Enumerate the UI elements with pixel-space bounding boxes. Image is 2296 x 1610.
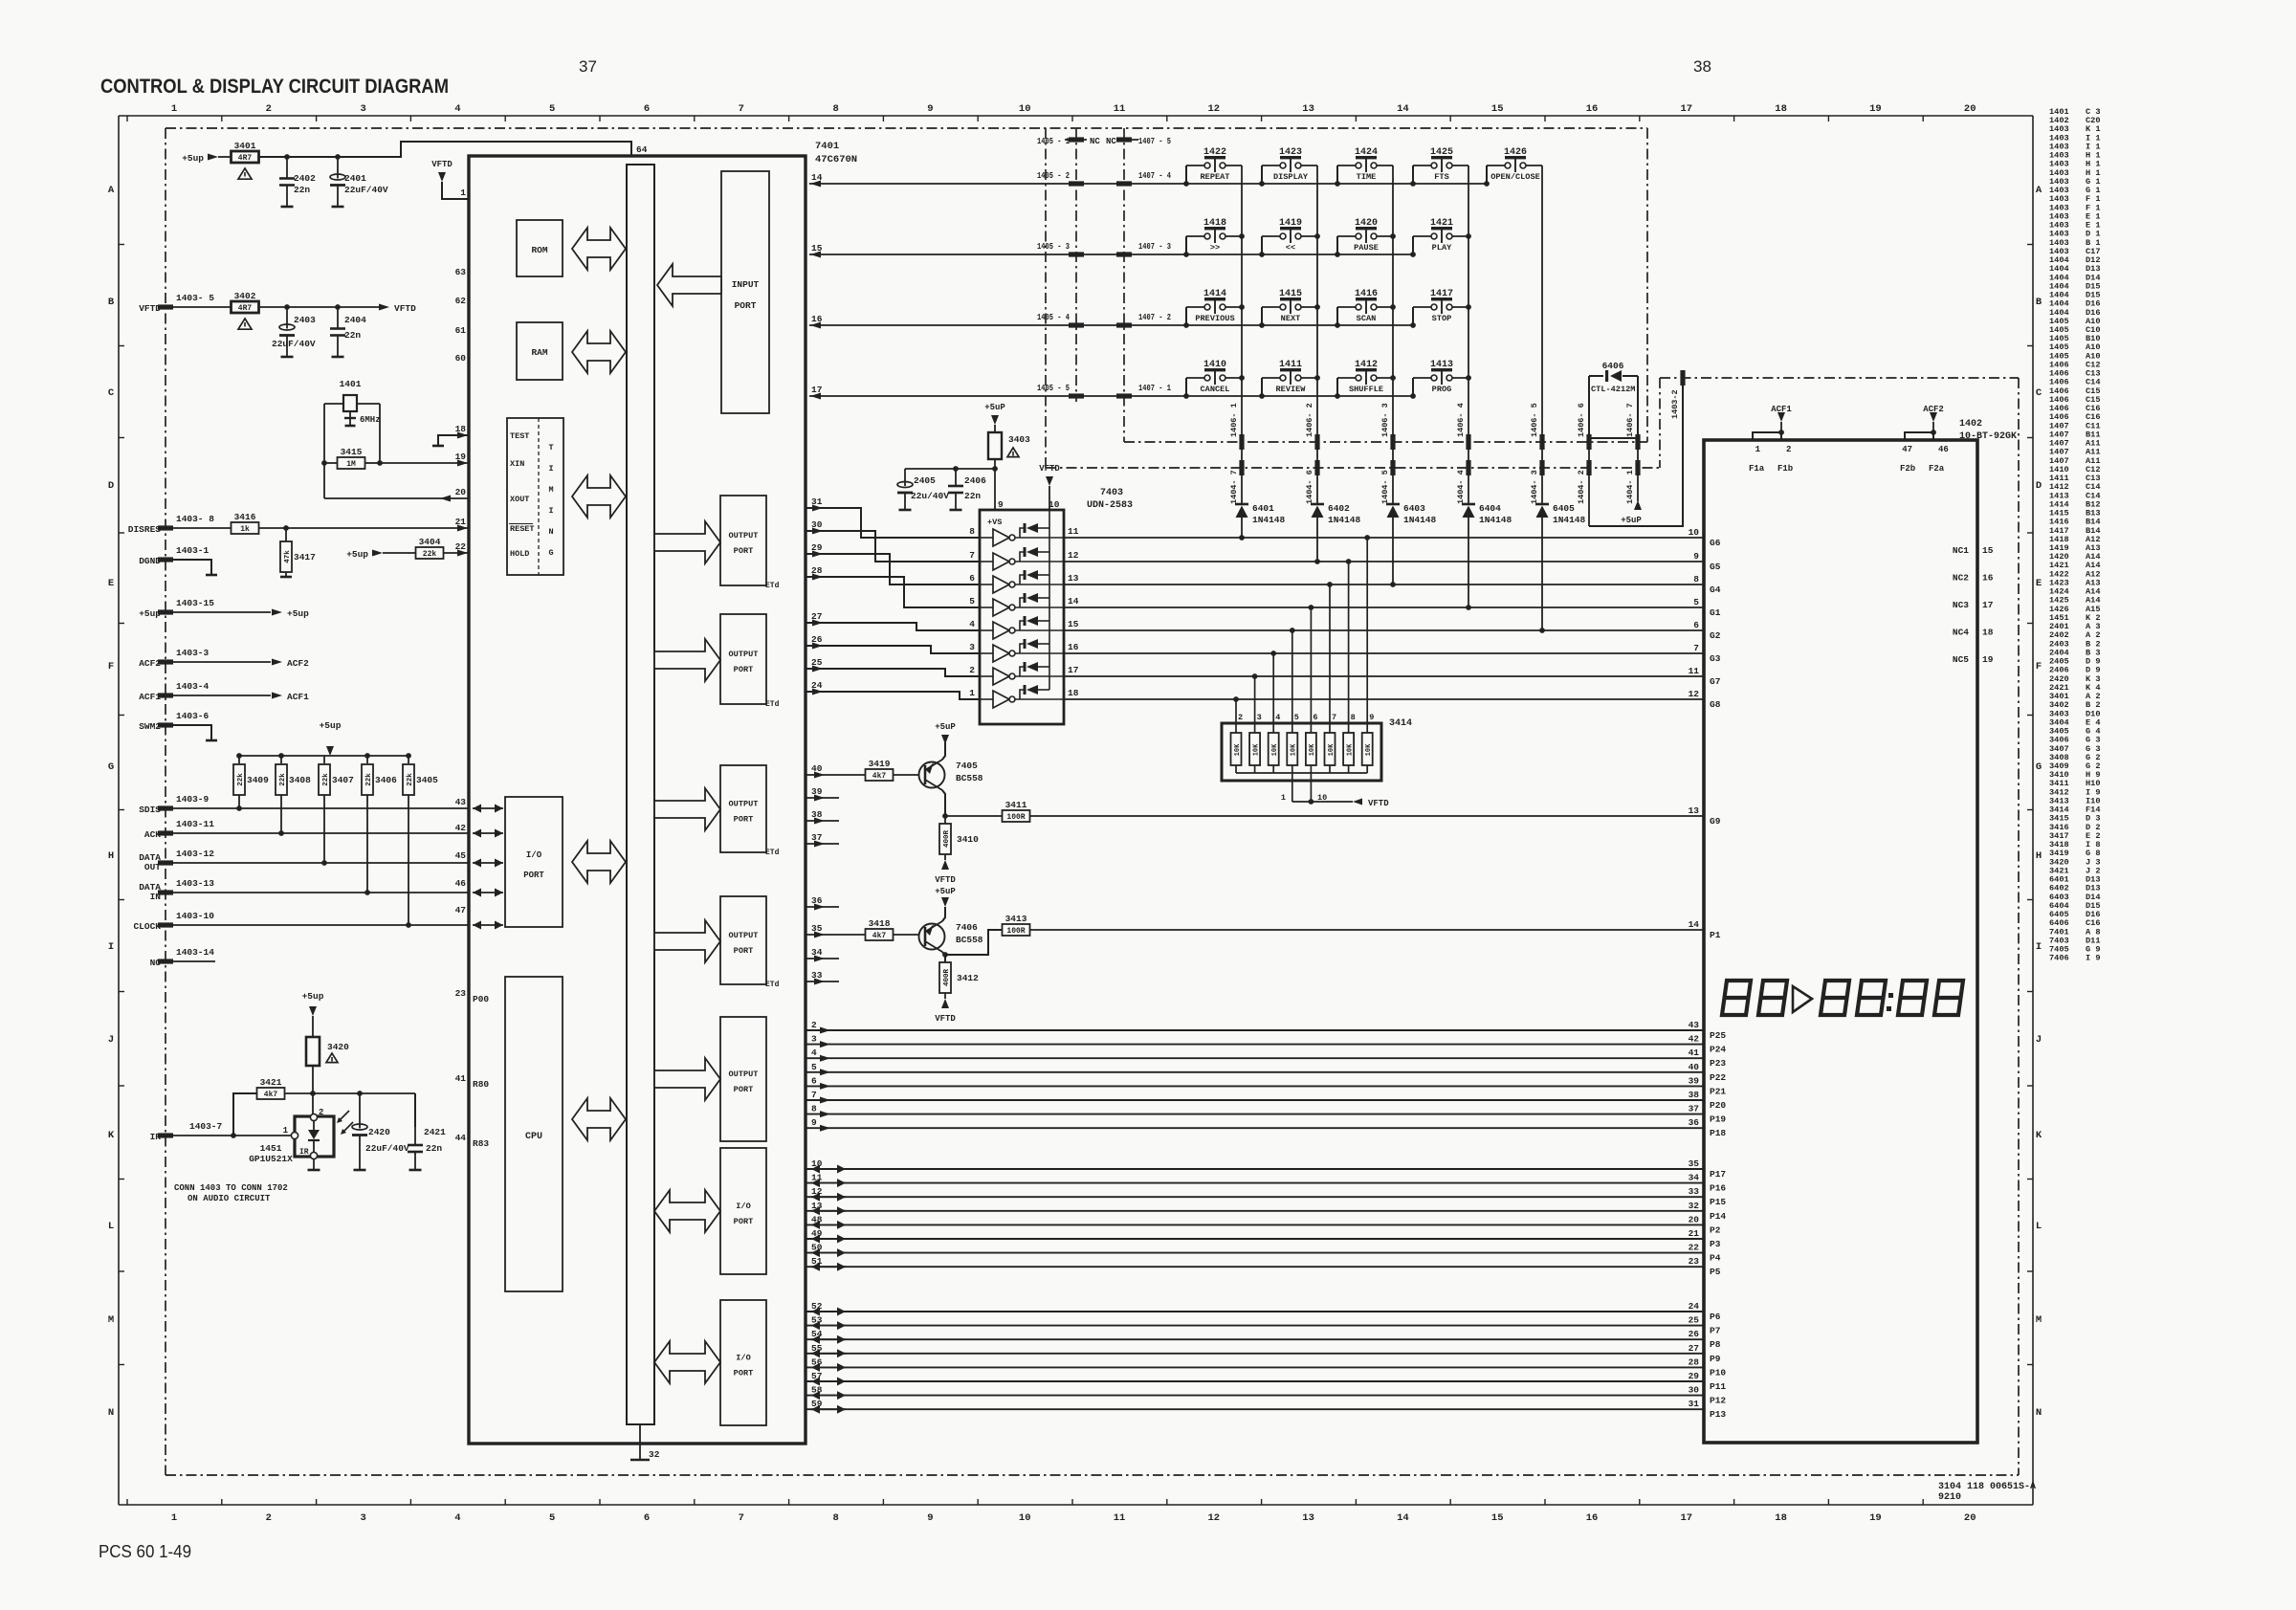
svg-text:G2: G2 xyxy=(1710,630,1721,641)
CPU block xyxy=(505,977,563,1291)
svg-text:62: 62 xyxy=(455,296,467,306)
svg-text:1403- 8: 1403- 8 xyxy=(176,514,214,524)
svg-text:J: J xyxy=(108,1034,114,1046)
wire G9 to display xyxy=(1030,815,1704,817)
svg-text:13: 13 xyxy=(1302,103,1314,115)
svg-text:NC2: NC2 xyxy=(1953,573,1969,584)
svg-text:I: I xyxy=(2036,941,2042,953)
wire XIN xyxy=(380,462,469,464)
svg-text:9: 9 xyxy=(927,1512,933,1524)
svg-text:P20: P20 xyxy=(1710,1100,1726,1111)
svg-text:N: N xyxy=(548,527,553,537)
I/O PORT left bus arrow xyxy=(572,841,626,883)
svg-text:2: 2 xyxy=(1786,445,1791,454)
resistor 3408 22k xyxy=(280,756,282,763)
svg-text:47C670N: 47C670N xyxy=(815,154,857,165)
svg-text:+5uP: +5uP xyxy=(935,887,956,896)
svg-text:NC1: NC1 xyxy=(1953,545,1969,556)
svg-text:P12: P12 xyxy=(1710,1396,1726,1406)
svg-text:3407: 3407 xyxy=(332,775,354,785)
svg-text:46: 46 xyxy=(1938,445,1949,454)
svg-text:42: 42 xyxy=(1689,1034,1700,1045)
svg-text:VFTD: VFTD xyxy=(431,160,453,169)
resistor 3417 xyxy=(285,528,287,541)
svg-text:13: 13 xyxy=(1689,805,1700,816)
svg-text:4: 4 xyxy=(1275,713,1280,722)
svg-text:24: 24 xyxy=(1689,1301,1700,1312)
svg-text:+5uP: +5uP xyxy=(984,403,1005,412)
resistor 3409 22k xyxy=(238,756,240,763)
svg-text:ETd: ETd xyxy=(765,582,780,590)
svg-text:7406: 7406 xyxy=(956,922,978,933)
hazard mark 3402 xyxy=(238,319,252,329)
svg-text:3: 3 xyxy=(360,103,365,115)
svg-text:6MHz: 6MHz xyxy=(360,415,381,425)
svg-text:19: 19 xyxy=(1869,103,1882,115)
svg-text:12: 12 xyxy=(1068,550,1079,561)
svg-text:22k: 22k xyxy=(365,773,373,786)
svg-text:5: 5 xyxy=(549,1512,555,1524)
svg-text:1407 - 1: 1407 - 1 xyxy=(1138,384,1171,393)
matrix column 1406-5 xyxy=(1541,165,1543,504)
svg-text:12: 12 xyxy=(1207,1512,1220,1524)
svg-text:+5uP: +5uP xyxy=(935,722,956,732)
svg-text:20: 20 xyxy=(1964,103,1976,115)
svg-text:1451: 1451 xyxy=(260,1143,282,1154)
svg-text:29: 29 xyxy=(1689,1371,1700,1381)
svg-text:15: 15 xyxy=(1068,619,1079,629)
svg-text:22uF/40V: 22uF/40V xyxy=(344,185,388,195)
svg-text:10: 10 xyxy=(1049,499,1060,510)
svg-text:T: T xyxy=(548,443,553,452)
svg-text:14: 14 xyxy=(1689,919,1700,930)
svg-text:37: 37 xyxy=(579,57,597,76)
capacitor 2406 22n xyxy=(955,469,957,486)
svg-text:400R: 400R xyxy=(943,830,951,849)
IC 7403 UDN-2583 body xyxy=(980,510,1064,724)
svg-text:1: 1 xyxy=(1755,445,1761,454)
svg-text:1406- 3: 1406- 3 xyxy=(1380,403,1390,437)
resistor 3416 1k xyxy=(232,522,259,534)
svg-text:1407 - 4: 1407 - 4 xyxy=(1138,171,1171,181)
svg-text:VFTD: VFTD xyxy=(1368,799,1389,808)
resistor 3413 100R xyxy=(1003,924,1030,936)
svg-text:7: 7 xyxy=(811,1090,817,1100)
svg-text:CANCEL: CANCEL xyxy=(1201,385,1230,394)
svg-text:1403-6: 1403-6 xyxy=(176,711,210,721)
svg-text:P2: P2 xyxy=(1710,1224,1721,1235)
svg-text:1403-14: 1403-14 xyxy=(176,947,214,958)
svg-text:17: 17 xyxy=(1982,600,1994,610)
svg-text:P24: P24 xyxy=(1710,1045,1726,1055)
svg-text:63: 63 xyxy=(455,267,467,277)
svg-text:10K: 10K xyxy=(1365,743,1373,756)
svg-text:45: 45 xyxy=(455,850,467,861)
svg-text:1: 1 xyxy=(1281,793,1286,803)
svg-text:F2a: F2a xyxy=(1929,464,1945,474)
svg-text:10K: 10K xyxy=(1309,743,1316,756)
svg-text:47: 47 xyxy=(455,905,467,915)
svg-text:+5up: +5up xyxy=(182,153,204,164)
svg-text:4R7: 4R7 xyxy=(238,304,253,313)
svg-text:12: 12 xyxy=(1207,103,1220,115)
junction 7406 collector xyxy=(942,952,948,958)
svg-text:17: 17 xyxy=(1680,103,1692,115)
capacitor 2403 22uF/40V xyxy=(286,307,288,329)
wire P1 to display xyxy=(1030,929,1704,931)
svg-text:2: 2 xyxy=(266,103,272,115)
svg-text:+5up: +5up xyxy=(320,720,342,731)
resistor 3420 xyxy=(306,1037,320,1066)
svg-text:PAUSE: PAUSE xyxy=(1354,243,1379,253)
svg-text:ROM: ROM xyxy=(531,245,547,255)
svg-text:L: L xyxy=(108,1221,114,1232)
svg-text:9: 9 xyxy=(811,1117,817,1128)
svg-text:5: 5 xyxy=(1294,713,1299,722)
svg-text:39: 39 xyxy=(811,786,823,797)
svg-text:4R7: 4R7 xyxy=(238,154,253,163)
svg-text:22n: 22n xyxy=(344,330,361,341)
svg-text:NC5: NC5 xyxy=(1953,654,1969,665)
svg-text:ETd: ETd xyxy=(765,700,780,709)
svg-text:6401: 6401 xyxy=(1252,503,1274,514)
svg-text:9: 9 xyxy=(998,499,1004,510)
net VFTD arrow row B xyxy=(379,304,389,311)
svg-text:26: 26 xyxy=(1689,1329,1700,1339)
svg-text:6405: 6405 xyxy=(1553,503,1575,514)
TIMING bus arrow xyxy=(572,475,626,518)
svg-text:42: 42 xyxy=(455,823,467,833)
svg-text:22uF/40V: 22uF/40V xyxy=(272,339,316,349)
network resistor pin 5 10K xyxy=(1291,630,1293,733)
svg-text:C: C xyxy=(108,387,115,399)
svg-text:DISPLAY: DISPLAY xyxy=(1273,172,1309,182)
RAM block xyxy=(517,322,563,380)
capacitor 2405 22u/40V xyxy=(905,468,995,470)
svg-text:14: 14 xyxy=(1397,103,1409,115)
svg-text:R83: R83 xyxy=(473,1138,489,1149)
colon dots xyxy=(1888,993,1893,998)
svg-text:IR: IR xyxy=(299,1148,309,1157)
IR ground xyxy=(313,1159,315,1170)
svg-text:1M: 1M xyxy=(346,460,356,469)
svg-text:F: F xyxy=(108,661,114,673)
svg-text:40: 40 xyxy=(811,763,823,774)
svg-text:I/O: I/O xyxy=(736,1354,750,1363)
svg-text:NC3: NC3 xyxy=(1953,600,1969,610)
keyboard pcb dash-dot box xyxy=(1123,128,1125,442)
svg-text:1403-9: 1403-9 xyxy=(176,794,210,805)
wire 3401 to pin64 xyxy=(259,142,631,157)
svg-text:1N4148: 1N4148 xyxy=(1252,515,1286,525)
svg-text:1402: 1402 xyxy=(1959,419,1982,430)
svg-text:2404: 2404 xyxy=(344,315,366,325)
svg-text:30: 30 xyxy=(1689,1385,1700,1396)
svg-text:NC: NC xyxy=(1090,137,1100,146)
svg-text:100R: 100R xyxy=(1006,927,1025,936)
svg-text:I/O: I/O xyxy=(526,850,542,860)
OUTPUT PORT block 2 xyxy=(720,614,766,704)
svg-text:1: 1 xyxy=(171,103,177,115)
svg-text:31: 31 xyxy=(1689,1399,1700,1409)
transistor 7405 BC558 xyxy=(919,762,945,788)
svg-text:INPUT: INPUT xyxy=(732,279,760,290)
svg-text:2405: 2405 xyxy=(914,475,936,486)
svg-text:3414: 3414 xyxy=(1389,718,1412,729)
svg-text:33: 33 xyxy=(811,970,823,981)
svg-text:22k: 22k xyxy=(322,773,330,786)
svg-text:I 9: I 9 xyxy=(2086,954,2100,963)
svg-text:E: E xyxy=(108,578,114,589)
svg-text:1404- 1: 1404- 1 xyxy=(1625,470,1635,504)
svg-text:P8: P8 xyxy=(1710,1339,1721,1350)
svg-text:15: 15 xyxy=(1491,1512,1504,1524)
svg-text:B: B xyxy=(108,297,115,308)
svg-text:G4: G4 xyxy=(1710,584,1721,595)
svg-text:OPEN/CLOSE: OPEN/CLOSE xyxy=(1490,172,1540,182)
svg-text:1N4148: 1N4148 xyxy=(1328,515,1361,525)
svg-text:2: 2 xyxy=(266,1512,272,1524)
svg-text:PORT: PORT xyxy=(734,1217,754,1226)
svg-text:H: H xyxy=(2036,850,2042,862)
svg-text:VFTD: VFTD xyxy=(394,303,416,314)
svg-text:1: 1 xyxy=(171,1512,177,1524)
svg-text:3411: 3411 xyxy=(1005,800,1027,810)
svg-text:6: 6 xyxy=(969,573,975,584)
svg-text:I: I xyxy=(108,941,114,953)
network resistor pin 6 10K xyxy=(1310,607,1312,733)
svg-text:21: 21 xyxy=(1689,1228,1700,1239)
svg-text:6: 6 xyxy=(811,1075,817,1086)
svg-text:P1: P1 xyxy=(1710,930,1721,940)
svg-text:38: 38 xyxy=(1689,1090,1700,1100)
svg-text:1N4148: 1N4148 xyxy=(1403,515,1437,525)
svg-text:F1b: F1b xyxy=(1777,464,1793,474)
hazard mark 3403 xyxy=(1007,448,1019,457)
svg-text:15: 15 xyxy=(1982,545,1994,556)
resistor 3412 xyxy=(939,962,951,993)
svg-text:P18: P18 xyxy=(1710,1128,1726,1138)
svg-text:39: 39 xyxy=(1689,1075,1700,1086)
svg-text:3402: 3402 xyxy=(234,291,256,301)
svg-text:15: 15 xyxy=(1491,103,1504,115)
junction 7405 collector xyxy=(942,813,948,819)
svg-text:18: 18 xyxy=(455,424,467,434)
svg-text:RESET: RESET xyxy=(510,524,535,534)
capacitor 2420 22uF/40V xyxy=(359,1093,361,1129)
svg-text:400R: 400R xyxy=(943,969,951,987)
svg-text:G: G xyxy=(108,761,114,773)
svg-text:3412: 3412 xyxy=(957,973,979,983)
svg-text:1403-10: 1403-10 xyxy=(176,911,214,921)
svg-text:3419: 3419 xyxy=(869,759,891,769)
svg-text:19: 19 xyxy=(1869,1512,1882,1524)
svg-text:OUTPUT: OUTPUT xyxy=(729,1070,759,1079)
svg-text:11: 11 xyxy=(1114,1512,1126,1524)
svg-text:23: 23 xyxy=(1689,1256,1700,1267)
svg-text:P9: P9 xyxy=(1710,1354,1721,1364)
svg-text:3: 3 xyxy=(811,1034,817,1045)
svg-text:16: 16 xyxy=(1068,642,1079,652)
svg-text:1k: 1k xyxy=(240,525,250,534)
svg-text:2: 2 xyxy=(969,665,975,675)
svg-text:1403-13: 1403-13 xyxy=(176,878,214,889)
svg-text:TEST: TEST xyxy=(510,431,529,441)
OUTPUT PORT 1 bus arrow xyxy=(654,521,720,563)
matrix column 1406-1 xyxy=(1241,165,1243,504)
svg-text:P13: P13 xyxy=(1710,1409,1726,1420)
matrix column 1406-4 xyxy=(1468,165,1469,504)
capacitor 2401 22uF/40V xyxy=(337,157,339,179)
svg-text:PROG: PROG xyxy=(1432,385,1452,394)
svg-text:22n: 22n xyxy=(964,491,981,501)
svg-text:N: N xyxy=(108,1407,114,1419)
svg-text:43: 43 xyxy=(455,797,467,807)
svg-text:STOP: STOP xyxy=(1432,314,1452,323)
svg-text:1406- 4: 1406- 4 xyxy=(1456,403,1466,437)
svg-text:1403-11: 1403-11 xyxy=(176,819,214,829)
network resistor pin 3 10K xyxy=(1254,676,1256,733)
svg-text:OUTPUT: OUTPUT xyxy=(729,931,759,940)
svg-text:1404- 4: 1404- 4 xyxy=(1456,470,1466,504)
svg-text:7: 7 xyxy=(1332,713,1336,722)
svg-text:6404: 6404 xyxy=(1479,503,1501,514)
svg-text:P5: P5 xyxy=(1710,1267,1721,1277)
svg-text:10K: 10K xyxy=(1234,743,1242,756)
svg-text:ACF1: ACF1 xyxy=(287,692,309,702)
CPU bus arrow xyxy=(572,1098,626,1140)
svg-text:3416: 3416 xyxy=(234,512,256,522)
svg-text:2: 2 xyxy=(1238,713,1243,722)
svg-text:A: A xyxy=(108,185,115,196)
svg-text:K: K xyxy=(2036,1130,2042,1141)
svg-text:K: K xyxy=(108,1130,115,1141)
network resistor pin 9 10K xyxy=(1366,538,1368,733)
svg-text:P14: P14 xyxy=(1710,1211,1726,1222)
svg-text:2421: 2421 xyxy=(424,1127,446,1137)
OUTPUT PORT 3 bus arrow xyxy=(654,788,720,830)
svg-text:NC: NC xyxy=(1106,137,1116,146)
svg-text:UDN-2583: UDN-2583 xyxy=(1087,500,1133,511)
svg-text:22: 22 xyxy=(455,541,467,552)
svg-text:P19: P19 xyxy=(1710,1114,1726,1125)
display top pins 1 2 F1a F1b xyxy=(1753,432,1781,440)
svg-text:11: 11 xyxy=(1689,666,1700,676)
network resistor pin 4 10K xyxy=(1272,653,1274,733)
svg-text:G: G xyxy=(548,548,553,558)
svg-text:16: 16 xyxy=(1586,103,1599,115)
driver common cathode rail xyxy=(1049,510,1050,690)
svg-text:5: 5 xyxy=(969,596,975,607)
svg-text:GP1U521X: GP1U521X xyxy=(249,1154,293,1164)
OUTPUT PORT block 5 xyxy=(720,1017,766,1141)
diode 6403 1N4148 xyxy=(1386,503,1400,506)
resistor 3406 22k xyxy=(366,756,368,763)
svg-text:18: 18 xyxy=(1982,628,1994,638)
svg-text:7: 7 xyxy=(969,550,975,561)
diode 6402 1N4148 xyxy=(1311,503,1324,506)
svg-text:3418: 3418 xyxy=(869,918,891,929)
svg-text:9210: 9210 xyxy=(1938,1492,1961,1503)
svg-text:L: L xyxy=(2036,1221,2042,1232)
svg-text:22u/40V: 22u/40V xyxy=(911,491,949,501)
svg-text:NC4: NC4 xyxy=(1953,628,1969,638)
svg-text:2406: 2406 xyxy=(964,475,986,486)
svg-text:17: 17 xyxy=(1680,1512,1692,1524)
ruler ticks xyxy=(126,116,128,121)
crystal loop wires xyxy=(323,404,325,498)
svg-text:REPEAT: REPEAT xyxy=(1201,172,1230,182)
svg-text:1404- 6: 1404- 6 xyxy=(1305,470,1314,504)
svg-text:2401: 2401 xyxy=(344,173,366,184)
svg-text:2402: 2402 xyxy=(294,173,316,184)
svg-text:1403-1: 1403-1 xyxy=(176,545,210,556)
svg-text:7405: 7405 xyxy=(956,761,978,771)
OUTPUT PORT 2 bus arrow xyxy=(654,639,720,681)
svg-text:1406- 2: 1406- 2 xyxy=(1305,403,1314,437)
svg-text:1: 1 xyxy=(283,1126,289,1136)
INPUT PORT block xyxy=(721,171,769,413)
svg-text:22k: 22k xyxy=(423,550,437,559)
svg-text:8: 8 xyxy=(832,103,838,115)
svg-text:3420: 3420 xyxy=(327,1042,349,1052)
svg-text:37: 37 xyxy=(1689,1104,1700,1114)
svg-text:1404- 3: 1404- 3 xyxy=(1530,470,1539,504)
svg-text:6402: 6402 xyxy=(1328,503,1350,514)
svg-text:10K: 10K xyxy=(1328,743,1336,756)
svg-text:44: 44 xyxy=(455,1133,467,1143)
svg-text:3404: 3404 xyxy=(419,537,441,547)
svg-text:ACF2: ACF2 xyxy=(139,658,161,669)
svg-text:D: D xyxy=(2036,480,2042,492)
wire to 3413 xyxy=(945,930,1002,955)
svg-text:F1a: F1a xyxy=(1749,464,1765,474)
svg-text:G6: G6 xyxy=(1710,538,1721,548)
svg-text:CPU: CPU xyxy=(525,1132,542,1142)
svg-text:34: 34 xyxy=(811,947,823,958)
svg-text:VFTD: VFTD xyxy=(935,875,956,885)
pin 32 ground xyxy=(639,1424,641,1460)
svg-text:4: 4 xyxy=(454,1512,460,1524)
svg-text:F: F xyxy=(2036,661,2042,673)
svg-text:DISRES: DISRES xyxy=(128,524,162,535)
svg-text:PORT: PORT xyxy=(734,546,754,556)
svg-text:CONTROL & DISPLAY CIRCUIT DIAG: CONTROL & DISPLAY CIRCUIT DIAGRAM xyxy=(100,76,449,98)
svg-text:1406- 7: 1406- 7 xyxy=(1625,403,1635,437)
svg-text:8: 8 xyxy=(832,1512,838,1524)
svg-text:1407 - 5: 1407 - 5 xyxy=(1138,137,1171,146)
svg-text:20: 20 xyxy=(1964,1512,1976,1524)
I/O PORT block right 1 xyxy=(720,1148,766,1274)
svg-text:16: 16 xyxy=(1982,573,1994,584)
svg-text:ETd: ETd xyxy=(765,849,780,857)
network pins 1 and 10 to VFTD xyxy=(1291,773,1293,802)
svg-text:ETd: ETd xyxy=(765,981,780,989)
svg-text:37: 37 xyxy=(811,832,823,843)
svg-text:5: 5 xyxy=(811,1062,817,1072)
svg-text:46: 46 xyxy=(455,878,467,889)
IR light rays xyxy=(339,1111,349,1121)
I/O PORT block left xyxy=(505,797,563,927)
svg-text:ACF1: ACF1 xyxy=(1771,405,1792,414)
svg-text:1403-2: 1403-2 xyxy=(1670,389,1680,419)
svg-text:33: 33 xyxy=(1689,1186,1700,1197)
svg-text:PORT: PORT xyxy=(523,871,544,880)
svg-text:1403-7: 1403-7 xyxy=(189,1121,223,1132)
svg-text:3421: 3421 xyxy=(260,1077,282,1088)
svg-text:1: 1 xyxy=(969,688,975,698)
svg-text:22uF/40V: 22uF/40V xyxy=(365,1143,409,1154)
